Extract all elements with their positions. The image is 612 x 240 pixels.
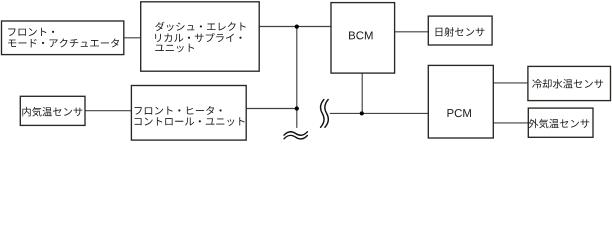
box front mode actuator: [2, 21, 124, 55]
label sunload sensor: [436, 27, 485, 36]
wire PCM to ambient temp sensor: [493, 122, 528, 124]
box cabin temp sensor: [20, 96, 85, 125]
wire BCM to sunload sensor: [395, 31, 429, 33]
box front heater control unit: [131, 86, 246, 141]
break symbol bottom of bus: [284, 132, 307, 139]
label dash electrical supply unit line2: [155, 33, 241, 42]
box coolant temp sensor: [528, 66, 611, 100]
label BCM: [349, 31, 372, 39]
wire PCM to coolant temp sensor: [493, 82, 528, 84]
box dash electrical supply unit: [141, 2, 260, 71]
label front mode actuator line2: [8, 38, 119, 47]
wire bus vertical: [296, 27, 298, 128]
wire BCM bottom to PCM wire: [361, 73, 363, 113]
box BCM: [331, 3, 395, 74]
label cabin temp sensor: [22, 107, 82, 117]
label ambient temp sensor: [528, 119, 589, 129]
box PCM: [428, 65, 493, 138]
junction node A: [295, 24, 299, 28]
label coolant temp sensor: [532, 79, 603, 88]
label front mode actuator line1: [8, 28, 54, 36]
box sunload sensor: [428, 16, 492, 45]
wire cabin temp sensor to heater control unit: [85, 110, 131, 112]
label dash electrical supply unit line3: [155, 44, 194, 53]
wire front mode actuator to dash unit: [124, 37, 141, 39]
label PCM: [447, 109, 470, 117]
wire break to PCM: [330, 112, 429, 114]
label dash electrical supply unit line1: [155, 22, 246, 31]
label front heater control unit line2: [134, 117, 244, 126]
wire heater control unit to bus: [246, 108, 297, 110]
junction node C: [360, 111, 364, 115]
box ambient temp sensor: [528, 108, 593, 137]
label front heater control unit line1: [135, 106, 222, 115]
wire dash unit to BCM: [259, 26, 331, 28]
junction node B: [295, 106, 299, 110]
break symbol on PCM wire: [320, 100, 328, 128]
